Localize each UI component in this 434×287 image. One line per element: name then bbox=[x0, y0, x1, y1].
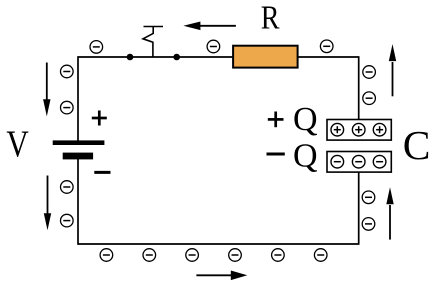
current arrow bottom (rightward) bbox=[196, 271, 247, 281]
electron bottom 3 bbox=[186, 249, 199, 262]
electron bottom 6 bbox=[314, 249, 327, 262]
electron right 1 bbox=[363, 66, 376, 79]
electron left 4 bbox=[61, 214, 74, 227]
electron right 2 bbox=[363, 92, 376, 105]
battery plus sign bbox=[92, 111, 107, 126]
electron right 4 bbox=[362, 218, 375, 231]
switch S1 junction dot right bbox=[173, 54, 180, 61]
current arrow right upper (up) bbox=[389, 44, 396, 96]
label plus Q bbox=[268, 101, 318, 138]
label R bbox=[261, 0, 280, 37]
svg-text:Q: Q bbox=[293, 101, 318, 138]
wire right lower bbox=[358, 172, 360, 245]
wire left upper bbox=[77, 56, 79, 141]
current arrow left lower (down) bbox=[44, 176, 51, 231]
capacitor C top plate box bbox=[327, 120, 391, 141]
svg-text:V: V bbox=[6, 124, 29, 166]
current arrow top (leftward) bbox=[183, 22, 236, 31]
negative charge n1 bbox=[331, 155, 344, 168]
svg-text:Q: Q bbox=[293, 138, 318, 175]
wire left lower bbox=[77, 159, 79, 245]
electron left 2 bbox=[61, 101, 74, 114]
label C bbox=[403, 122, 431, 168]
current arrow left upper (down) bbox=[43, 63, 50, 117]
electron left 1 bbox=[61, 65, 74, 78]
electron bottom 2 bbox=[143, 249, 156, 262]
electron bottom 4 bbox=[229, 249, 242, 262]
wire top bbox=[78, 56, 359, 58]
electron right 3 bbox=[362, 191, 375, 204]
battery V long plate (+) bbox=[53, 140, 105, 145]
capacitor C bottom plate box bbox=[327, 152, 391, 173]
positive charge p2 bbox=[352, 123, 365, 136]
electron bottom 5 bbox=[272, 249, 285, 262]
resistor R1 bbox=[233, 46, 298, 68]
battery minus sign bbox=[94, 171, 110, 174]
positive charge p1 bbox=[331, 123, 344, 136]
svg-text:C: C bbox=[403, 122, 431, 168]
negative charge n2 bbox=[352, 155, 365, 168]
svg-text:R: R bbox=[261, 0, 280, 37]
wire right upper bbox=[358, 56, 360, 120]
switch S1 junction dot left bbox=[127, 54, 134, 61]
electron top 3 bbox=[320, 40, 333, 53]
negative charge n3 bbox=[373, 155, 386, 168]
current arrow right lower (up) bbox=[386, 187, 393, 239]
label minus Q bbox=[267, 138, 318, 175]
electron bottom 1 bbox=[100, 249, 113, 262]
electron top 2 bbox=[207, 40, 220, 53]
electron left 3 bbox=[61, 181, 74, 194]
label V bbox=[6, 124, 29, 166]
battery V short plate (-) bbox=[63, 153, 93, 160]
electron top 1 bbox=[90, 41, 103, 54]
switch S1 push button bbox=[143, 27, 163, 58]
wire bottom bbox=[78, 243, 359, 245]
positive charge p3 bbox=[373, 123, 386, 136]
